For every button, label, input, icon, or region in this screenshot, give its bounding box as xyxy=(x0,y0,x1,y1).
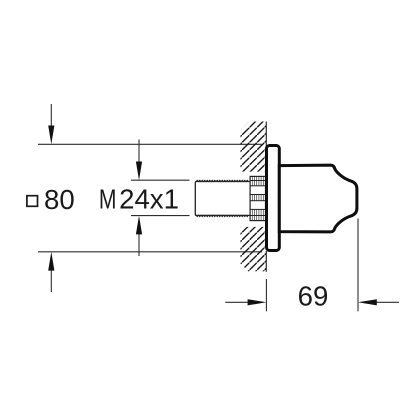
escutcheon flange xyxy=(267,146,280,251)
wall hatch lower section xyxy=(241,227,267,271)
square symbol of dimension label xyxy=(27,196,38,207)
svg-text:24x1: 24x1 xyxy=(119,183,179,214)
dimension 80: bottom arrow xyxy=(48,252,54,292)
dimension M24x1: bottom arrow xyxy=(136,216,142,256)
dimension 69: left extension line xyxy=(265,279,267,311)
handle knob body xyxy=(279,165,357,232)
threaded shaft xyxy=(195,180,250,217)
wall hatch upper section xyxy=(241,122,267,172)
dimension M24x1: top extension line xyxy=(131,179,190,181)
dimension 69: right extension line xyxy=(357,219,359,312)
dimension M24x1: top arrow xyxy=(136,140,142,181)
dimension M24x1: bottom extension line xyxy=(131,215,190,217)
wall surface line lower xyxy=(265,251,267,272)
dimension 69: right arrow xyxy=(358,299,399,305)
svg-text:M: M xyxy=(99,183,117,214)
dimension 80: top arrow xyxy=(48,104,54,144)
svg-text:69: 69 xyxy=(298,281,329,312)
dimension 69: left arrow xyxy=(225,299,266,305)
splined adapter block xyxy=(250,176,265,220)
wall surface line upper xyxy=(265,122,267,147)
dimension 80: top extension line xyxy=(38,143,262,145)
svg-text:80: 80 xyxy=(44,184,75,215)
dimension 80: bottom extension line xyxy=(38,251,262,253)
